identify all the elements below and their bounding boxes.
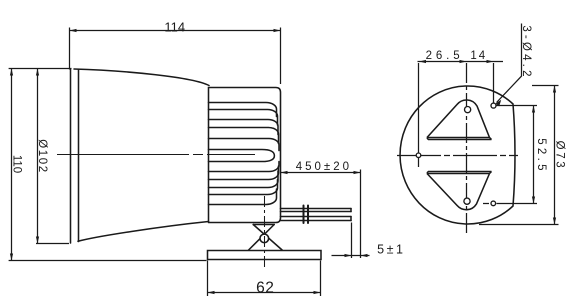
svg-text:Ø73: Ø73 xyxy=(553,141,565,171)
svg-text:14: 14 xyxy=(470,50,487,62)
svg-text:114: 114 xyxy=(164,20,185,35)
svg-text:62: 62 xyxy=(256,280,274,297)
svg-text:5±1: 5±1 xyxy=(377,243,405,257)
svg-text:Ø102: Ø102 xyxy=(36,139,48,174)
svg-text:52.5: 52.5 xyxy=(535,138,547,174)
svg-text:3-Ø4.2: 3-Ø4.2 xyxy=(520,25,532,79)
svg-text:26.5: 26.5 xyxy=(426,50,464,62)
svg-text:110: 110 xyxy=(11,155,23,173)
svg-text:450±20: 450±20 xyxy=(296,161,352,173)
